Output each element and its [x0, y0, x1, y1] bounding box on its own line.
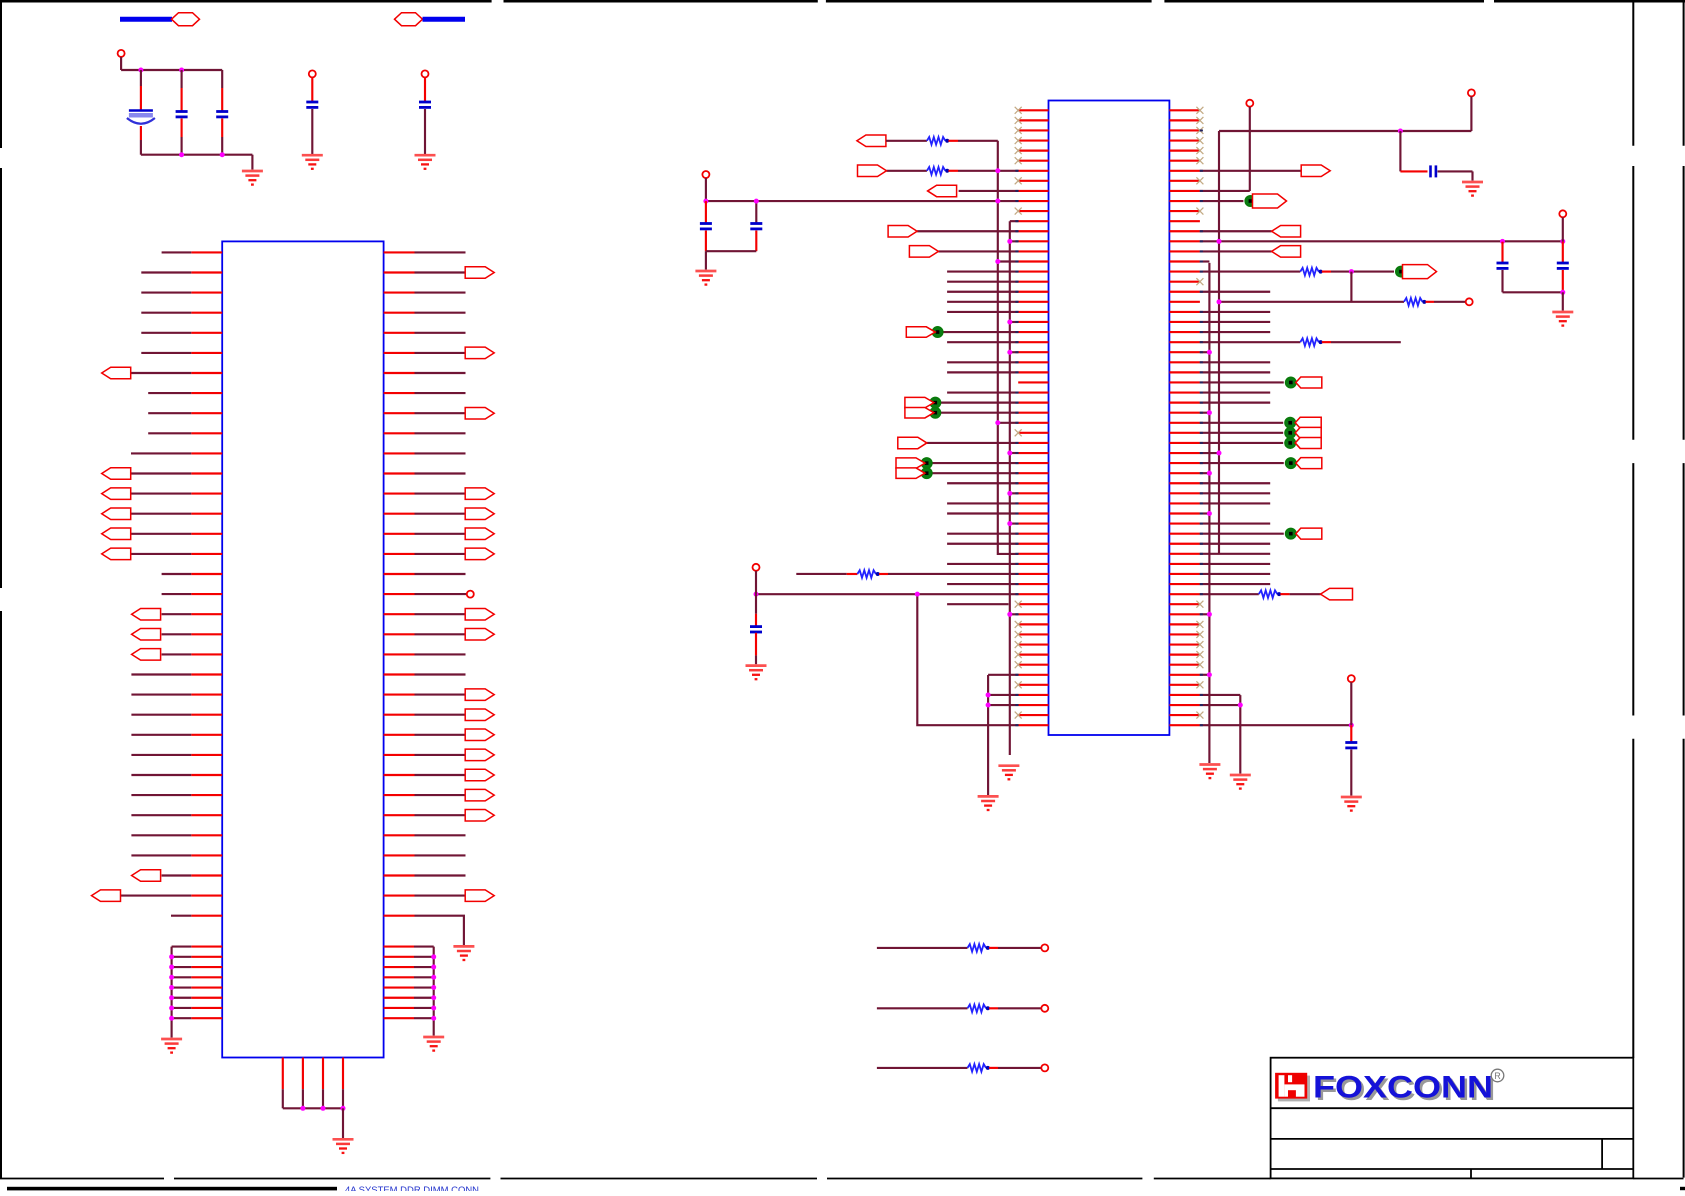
capacitor C2 [176, 112, 188, 117]
test point [1285, 428, 1296, 439]
test point [932, 327, 943, 338]
port U1 R16 [465, 548, 494, 560]
U2 left pin 40 [1018, 502, 1048, 504]
junction [169, 1016, 174, 1021]
U2 left pin 16 [1018, 260, 1048, 262]
resistor R1 [927, 167, 949, 175]
port [905, 407, 934, 418]
U1 left power bus [171, 947, 173, 1038]
wire [311, 78, 313, 102]
junction [300, 1106, 305, 1111]
port [1301, 165, 1330, 177]
port [1296, 458, 1322, 469]
junction [1500, 239, 1505, 244]
no-connect [1196, 208, 1203, 215]
ground [1462, 182, 1483, 196]
terminal P1 [118, 50, 125, 57]
U1 right pin 1 [384, 251, 415, 253]
U1 right pin 26 [384, 754, 415, 756]
U2 left pin 1 [1018, 109, 1048, 111]
U2 left pin 56 [1018, 664, 1048, 666]
port [1296, 528, 1322, 539]
U2 right pin 54 [1169, 643, 1200, 645]
U2 left pin 11 [1018, 210, 1048, 212]
U2 left pin 6 [1018, 160, 1048, 162]
port U1 L33 [92, 890, 121, 902]
terminal [309, 70, 316, 77]
U1 right pin 28 [384, 794, 415, 796]
no-connect [1196, 681, 1203, 688]
wire [424, 78, 426, 102]
no-connect [1196, 601, 1203, 608]
U1 left power pin 2 [191, 956, 222, 958]
U2 right pin 61 [1169, 714, 1200, 716]
no-connect [1015, 127, 1022, 134]
wire [1501, 270, 1503, 292]
U2 left pin 62 [1018, 724, 1048, 726]
wire [1350, 682, 1352, 725]
wire [1562, 292, 1564, 310]
junction [1349, 269, 1354, 274]
no-connect [1196, 107, 1203, 114]
junction [1207, 672, 1212, 677]
junction [1207, 471, 1212, 476]
port U1 R29 [465, 809, 494, 821]
wire [705, 201, 707, 223]
U1 right pin 15 [384, 533, 415, 535]
no-connect [1015, 107, 1022, 114]
U1 right pin 17 [384, 573, 415, 575]
no-connect [1196, 712, 1203, 719]
U2 right pin 37 [1169, 472, 1200, 474]
U2 pin entry ticks right [1200, 129, 1203, 131]
page border right outer [1683, 0, 1685, 146]
U1 left power pin 1 [191, 946, 222, 948]
U2 left pin 46 [1018, 563, 1048, 565]
wire [755, 571, 757, 594]
port U1 R20 [465, 629, 494, 641]
capacitor [1345, 743, 1357, 748]
U2 right pin 10 [1169, 200, 1200, 202]
no-connect [1196, 117, 1203, 124]
port [857, 135, 886, 147]
pull resistor row 3 [877, 1067, 968, 1069]
U1 right pin 33 [384, 895, 415, 897]
wire [1471, 171, 1473, 180]
test point [1245, 196, 1256, 207]
U2 left pin 15 [1018, 250, 1048, 252]
U2 right pin 55 [1169, 654, 1200, 656]
U1 left pin 4 [191, 312, 222, 314]
U1 left pin 14 [191, 513, 222, 515]
terminal [1468, 89, 1475, 96]
no-connect [1015, 661, 1022, 668]
port U1 R23 [465, 689, 494, 701]
junction [1007, 350, 1012, 355]
U2 left pin 30 [1018, 402, 1048, 404]
test point [1286, 377, 1297, 388]
junction [1217, 299, 1222, 304]
U1 left pin 16 [191, 553, 222, 555]
net flag wire 1 [120, 17, 172, 22]
junction [341, 1106, 346, 1111]
port [888, 226, 917, 238]
resistor [1300, 268, 1322, 276]
U2 right pin 23 [1169, 331, 1200, 333]
junction [431, 1016, 436, 1021]
wire [283, 1107, 343, 1109]
terminal [1246, 100, 1253, 107]
U2 right pin 31 [1169, 412, 1200, 414]
ground [415, 155, 436, 169]
U1 right pin 27 [384, 774, 415, 776]
U2 right pin 8 [1169, 180, 1200, 182]
capacitor [1557, 263, 1569, 268]
U2 right pin 32 [1169, 422, 1200, 424]
U2 right pin 40 [1169, 502, 1200, 504]
junction [754, 199, 759, 204]
junction [754, 592, 759, 597]
U1 left pin 30 [191, 834, 222, 836]
wire [181, 137, 183, 155]
no-connect [1196, 147, 1203, 154]
no-connect [1015, 208, 1022, 215]
port [1295, 427, 1321, 438]
junction [169, 965, 174, 970]
svg-text:4A SYSTEM DDR DIMM CONN: 4A SYSTEM DDR DIMM CONN [345, 1185, 479, 1191]
port U1 R9 [465, 407, 494, 419]
port [905, 397, 934, 408]
junction [995, 168, 1000, 173]
U2 left pin 33 [1018, 432, 1048, 434]
no-connect [1015, 712, 1022, 719]
no-connect [1196, 651, 1203, 658]
bus E vertical [987, 675, 989, 795]
U2 left pin 59 [1018, 694, 1048, 696]
page corner mark [1680, 1187, 1685, 1190]
port [1295, 417, 1321, 428]
U1 left pin 25 [191, 734, 222, 736]
U1 left pin 21 [191, 653, 222, 655]
U1 left pin 1 [191, 251, 222, 253]
U2 right pin 51 [1169, 613, 1200, 615]
title block frame [1271, 1058, 1634, 1179]
U2 left pin 29 [1018, 391, 1048, 393]
U1 right pin 4 [384, 312, 415, 314]
U2 right pin 52 [1169, 623, 1200, 625]
terminal [1041, 944, 1048, 951]
port U1 R13 [465, 488, 494, 500]
page border right inner [1632, 0, 1634, 146]
resistor RP1 [968, 944, 990, 952]
resistor RP2 [968, 1005, 990, 1013]
U2 pin entry ticks left [1015, 170, 1018, 172]
wire [1470, 97, 1472, 132]
port U1 L32 [132, 870, 161, 882]
U1 left power pin 7 [191, 1007, 222, 1009]
test point [1286, 458, 1297, 469]
page footer bar [7, 1187, 337, 1191]
U2 right pin 13 [1169, 230, 1200, 232]
port U1 L20 [132, 629, 161, 641]
junction [431, 995, 436, 1000]
U1 left pin 33 [191, 895, 222, 897]
U2 right pin 25 [1169, 351, 1200, 353]
junction [179, 152, 184, 157]
port [909, 246, 938, 258]
junction [1007, 451, 1012, 456]
junction [1238, 703, 1243, 708]
svg-text:R: R [1494, 1071, 1501, 1081]
U1 right pin 24 [384, 714, 415, 716]
terminal [1041, 1005, 1048, 1012]
U1 left pin 15 [191, 533, 222, 535]
ground [333, 1139, 354, 1153]
U1 left pin 9 [191, 412, 222, 414]
ground [1199, 765, 1220, 779]
bus F vertical [917, 594, 1018, 725]
U2 right pin 53 [1169, 633, 1200, 635]
junction [321, 1106, 326, 1111]
port [858, 165, 887, 177]
port [1321, 588, 1353, 600]
port [1295, 437, 1321, 448]
U1 right power pin 6 [384, 997, 414, 999]
U2 left pin 52 [1018, 623, 1048, 625]
U2 left pin 25 [1018, 351, 1048, 353]
port [1296, 377, 1322, 388]
junction [915, 592, 920, 597]
U2 left pin 7 [1018, 170, 1048, 172]
junction [431, 954, 436, 959]
port U1 L12 [102, 468, 131, 480]
U2 right pin 60 [1169, 704, 1200, 706]
U2 right pin 18 [1169, 281, 1200, 283]
U1 right pin 7 [384, 372, 415, 374]
U2 left pin 53 [1018, 633, 1048, 635]
U1 left pin 22 [191, 673, 222, 675]
resistor [1259, 590, 1281, 598]
U2 right pin 38 [1169, 482, 1200, 484]
no-connect [1196, 177, 1203, 184]
port U1 L15 [102, 528, 131, 540]
no-connect [1015, 641, 1022, 648]
terminal [1041, 1064, 1048, 1071]
wire [221, 137, 223, 155]
U2 right pin 47 [1169, 573, 1200, 575]
U1 right pin 6 [384, 352, 415, 354]
U2 right pin 24 [1169, 341, 1200, 343]
junction [1217, 451, 1222, 456]
U1 right power pin 3 [384, 966, 414, 968]
junction [986, 692, 991, 697]
U1 left pin 28 [191, 794, 222, 796]
junction [1207, 410, 1212, 415]
U2 left pin 48 [1018, 583, 1048, 585]
U2 right pin 50 [1169, 603, 1200, 605]
U1 right pin 20 [384, 633, 415, 635]
wire [311, 109, 313, 154]
U1 right power pin 7 [384, 1007, 414, 1009]
U1 right pin 19 [384, 613, 415, 615]
capacitor [700, 224, 712, 229]
wire [705, 178, 707, 201]
wire [1503, 291, 1563, 293]
port U1 R28 [465, 789, 494, 801]
U2 right pin 44 [1169, 543, 1200, 545]
U2 right pin 12 [1169, 220, 1200, 222]
U1 left pin 11 [191, 452, 222, 454]
port U1 R24 [465, 709, 494, 721]
wire [181, 70, 183, 88]
junction [1349, 723, 1354, 728]
port U1 R27 [465, 769, 494, 781]
U1 left pin 12 [191, 472, 222, 474]
U1 right power pin 4 [384, 976, 414, 978]
capacitor [306, 102, 318, 107]
U2 left pin 22 [1018, 321, 1048, 323]
U1 left pin 5 [191, 332, 222, 334]
test point [921, 458, 932, 469]
U2 left pin 43 [1018, 533, 1048, 535]
no-connect [1015, 157, 1022, 164]
U2 right pin 26 [1169, 361, 1200, 363]
junction [431, 1005, 436, 1010]
port U1 R19 [465, 608, 494, 620]
terminal [467, 591, 474, 598]
capacitor C3 [216, 112, 228, 117]
U2 right pin 29 [1169, 391, 1200, 393]
capacitor [1497, 263, 1509, 268]
U1 right pin 25 [384, 734, 415, 736]
wire [1400, 170, 1427, 172]
U1 left pin 2 [191, 271, 222, 273]
U1 left pin 6 [191, 352, 222, 354]
pull resistor row 1 [877, 947, 968, 949]
U2 left pin 42 [1018, 523, 1048, 525]
U2 left pin 57 [1018, 674, 1048, 676]
U1 right pin 3 [384, 292, 415, 294]
net flag wire 2 [423, 17, 466, 22]
U1 left pin 18 [191, 593, 222, 595]
connector U1 body [222, 241, 383, 1057]
test point [921, 468, 932, 479]
U2 right pin 21 [1169, 311, 1200, 313]
resistor [857, 570, 879, 578]
svg-text:FOXCONN: FOXCONN [1313, 1069, 1493, 1105]
wire [1562, 242, 1564, 263]
port [896, 458, 925, 469]
port U1 L7 [102, 367, 131, 379]
wire rail top [121, 69, 222, 71]
wire [251, 155, 253, 170]
U2 left pin 8 [1018, 180, 1048, 182]
off-page connector 1 [172, 13, 200, 26]
wire [1562, 270, 1564, 292]
U2 right pin 57 [1169, 674, 1200, 676]
U2 left pin 55 [1018, 654, 1048, 656]
capacitor C1 [127, 111, 155, 124]
U1 left pin 20 [191, 633, 222, 635]
U2 left pin 19 [1018, 291, 1048, 293]
U2 right pin 42 [1169, 523, 1200, 525]
terminal [1559, 210, 1566, 217]
U1 right power pin 1 [384, 946, 414, 948]
wire [755, 231, 757, 252]
U2 right pin 14 [1169, 240, 1200, 242]
junction [1398, 129, 1403, 134]
U2 right pin 2 [1169, 119, 1200, 121]
U2 left pin 36 [1018, 462, 1048, 464]
page border left [0, 0, 2, 148]
U1 right pin 8 [384, 392, 415, 394]
U1 left pin 3 [191, 292, 222, 294]
U1 left pin 31 [191, 854, 222, 856]
no-connect [1015, 631, 1022, 638]
U1 right pin 22 [384, 673, 415, 675]
junction [986, 703, 991, 708]
U1 left pin 8 [191, 392, 222, 394]
U2 left pin 44 [1018, 543, 1048, 545]
U1 right power pin 5 [384, 986, 414, 988]
port [1253, 194, 1287, 208]
port U1 R33 [465, 890, 494, 902]
junction [1560, 290, 1565, 295]
junction [703, 199, 708, 204]
no-connect [1015, 117, 1022, 124]
U2 left pin 34 [1018, 442, 1048, 444]
U2 right pin 20 [1169, 301, 1200, 303]
U2 right pin 58 [1169, 684, 1200, 686]
U2 left pin 51 [1018, 613, 1048, 615]
no-connect [1015, 621, 1022, 628]
capacitor [750, 627, 762, 632]
no-connect [1015, 601, 1022, 608]
port [1272, 246, 1301, 258]
U2 left pin 9 [1018, 190, 1048, 192]
junction [1207, 612, 1212, 617]
wire [705, 231, 707, 252]
bus A vertical [1009, 221, 1011, 755]
U2 left pin 12 [1018, 220, 1048, 222]
port U1 L16 [102, 548, 131, 560]
U1 left power pin 5 [191, 986, 222, 988]
terminal [1348, 675, 1355, 682]
wire rail [1219, 130, 1471, 132]
ground [242, 171, 263, 185]
U2 left pin 58 [1018, 684, 1048, 686]
U2 right pin 39 [1169, 492, 1200, 494]
U1 left power pin 3 [191, 966, 222, 968]
U1 bottom pins [282, 1058, 284, 1090]
no-connect [1196, 157, 1203, 164]
wire [755, 201, 757, 223]
U2 right pin 30 [1169, 402, 1200, 404]
port U1 R15 [465, 528, 494, 540]
U2 left pin 10 [1018, 200, 1048, 202]
U2 right pin 49 [1169, 593, 1200, 595]
U1 left pin 13 [191, 493, 222, 495]
test point [930, 407, 941, 418]
wire [1562, 218, 1564, 242]
port U1 R2 [465, 267, 494, 279]
no-connect [1196, 631, 1203, 638]
ground [695, 271, 716, 285]
no-connect [1196, 278, 1203, 285]
U2 right pin 11 [1169, 210, 1200, 212]
wire [1350, 272, 1352, 302]
junction [1007, 319, 1012, 324]
